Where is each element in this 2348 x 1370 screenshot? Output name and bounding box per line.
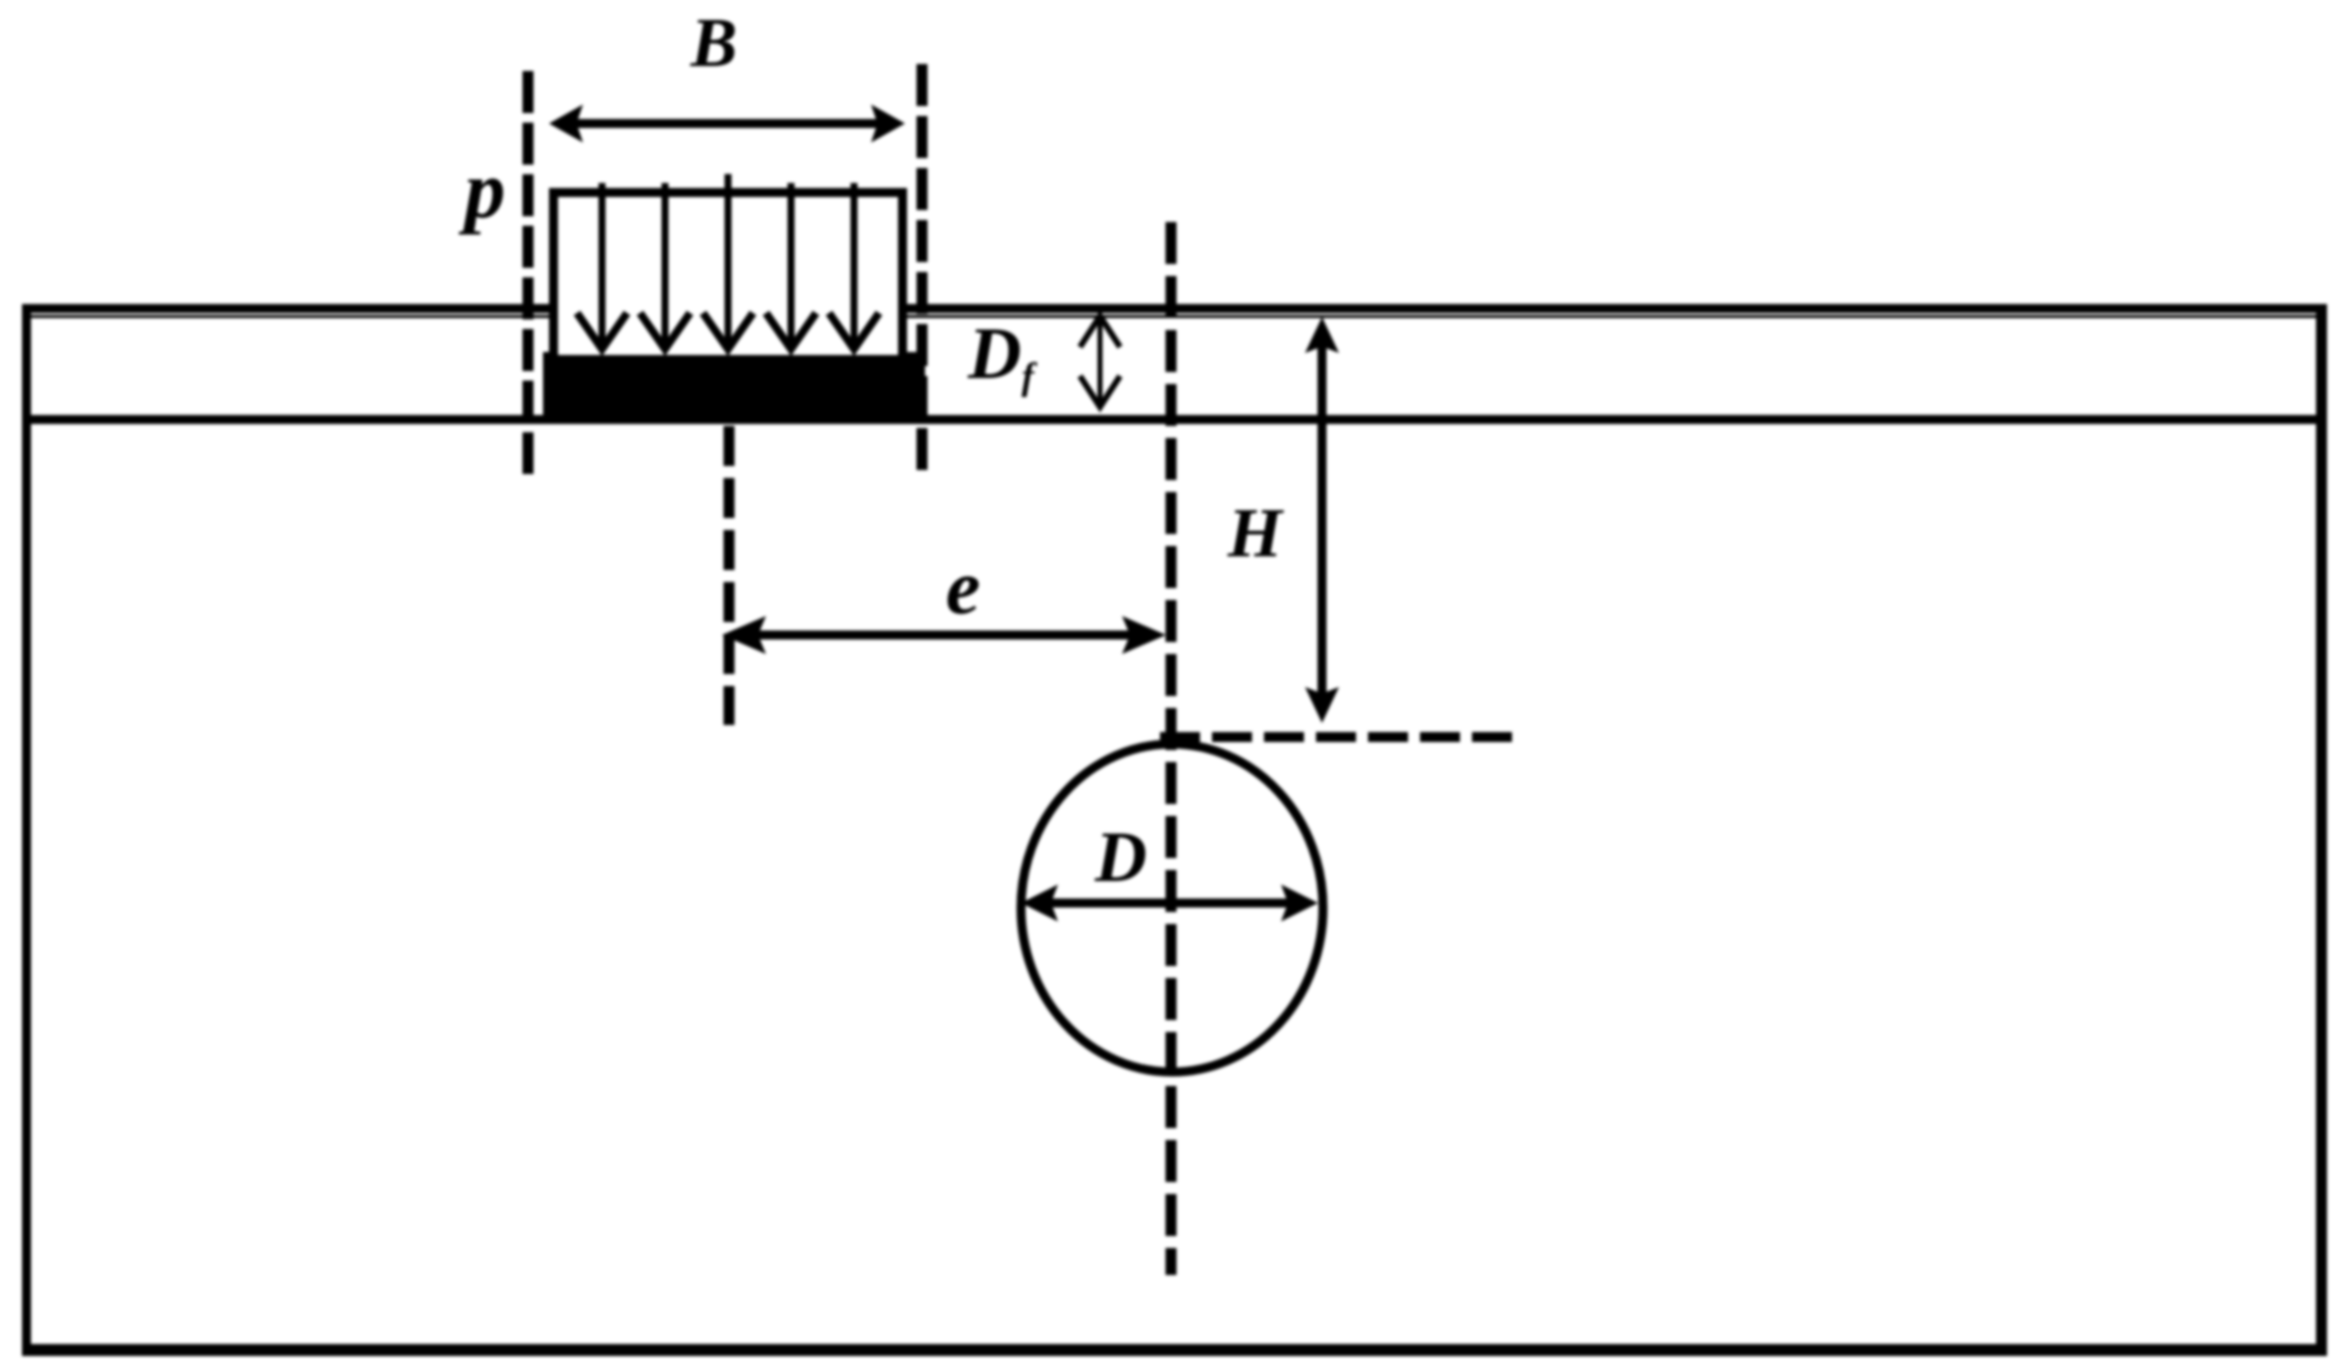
footing (black strip) bbox=[543, 352, 925, 419]
dashed line tunnel axis bbox=[1166, 222, 1177, 1275]
e dimension arrow bbox=[722, 616, 1166, 654]
load arrow 1 bbox=[577, 183, 627, 349]
svg-text:e: e bbox=[946, 543, 981, 630]
Df dimension arrow (small vertical double arrow) bbox=[1080, 316, 1120, 407]
ground surface line (top of box, thick) bbox=[22, 304, 2326, 313]
soil domain outer box left border bbox=[22, 304, 31, 1356]
dashed line left of footing bbox=[523, 71, 534, 474]
D dimension arrow (tunnel diameter) bbox=[1021, 885, 1318, 922]
ground surface secondary thin line bbox=[22, 315, 2326, 318]
svg-text:D: D bbox=[1094, 817, 1147, 897]
H dimension arrow (vertical) bbox=[1305, 317, 1339, 723]
footing base level line (bottom of Df band) bbox=[22, 415, 2326, 424]
soil domain outer box right border bbox=[2316, 304, 2327, 1356]
load arrow 2 bbox=[640, 183, 690, 349]
load arrow 4 bbox=[766, 183, 816, 349]
B dimension arrow bbox=[549, 105, 905, 143]
dashed line footing axis bbox=[724, 426, 735, 725]
dashed line tunnel crown level bbox=[1160, 732, 1513, 742]
load arrow 5 bbox=[829, 183, 879, 349]
soil domain outer box bottom border bbox=[22, 1344, 2327, 1356]
load arrow 3 bbox=[703, 174, 753, 349]
tunnel circle bbox=[1021, 744, 1323, 1072]
svg-text:B: B bbox=[690, 5, 738, 82]
dashed line right of footing bbox=[917, 64, 928, 470]
load box (surcharge p region) bbox=[549, 192, 907, 355]
svg-text:p: p bbox=[459, 144, 506, 235]
svg-text:H: H bbox=[1227, 495, 1285, 572]
